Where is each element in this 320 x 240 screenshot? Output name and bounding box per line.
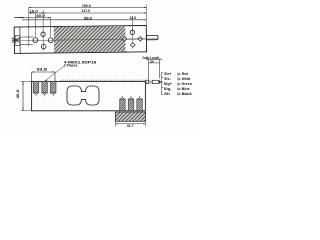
callout leader bbox=[45, 66, 64, 81]
cable gland stub (top view) bbox=[146, 35, 158, 39]
dimension 150.0 bbox=[29, 7, 147, 9]
svg-text:33.8: 33.8 bbox=[36, 68, 47, 72]
side view body bbox=[32, 81, 146, 110]
dimension 33.8 bbox=[32, 72, 55, 81]
top threaded hole 2 bbox=[42, 81, 48, 96]
right block diamond right bbox=[138, 37, 143, 42]
top view hatched midsection bbox=[54, 26, 126, 52]
top view loading boss bbox=[14, 36, 33, 46]
top view body bbox=[14, 25, 146, 53]
cable length dimension 2m bbox=[146, 59, 162, 80]
binocular cutout bbox=[67, 86, 99, 105]
svg-text:Blue: Blue bbox=[182, 87, 190, 91]
svg-text:117.0: 117.0 bbox=[81, 9, 90, 13]
svg-text:Black: Black bbox=[182, 92, 192, 96]
side view edge extensions to vertical dim bbox=[21, 80, 32, 82]
cable arrow bbox=[159, 80, 162, 84]
svg-text:88.0: 88.0 bbox=[84, 16, 92, 20]
right block hole cross ticks bbox=[121, 29, 145, 39]
svg-text:150.0: 150.0 bbox=[82, 4, 91, 8]
dimension arrowheads bbox=[14, 7, 161, 125]
wire row Ex+ Red bbox=[164, 72, 188, 76]
right block diamond left bbox=[122, 37, 127, 42]
svg-text:41.7: 41.7 bbox=[127, 124, 134, 128]
svg-text:2 Places: 2 Places bbox=[64, 64, 78, 68]
wire row Sig+ Green bbox=[164, 82, 192, 86]
bottom threaded hole 2 bbox=[128, 96, 134, 111]
left block hole bottom bbox=[41, 44, 46, 49]
wire row Sh Black bbox=[164, 92, 192, 96]
loading button star bbox=[11, 36, 20, 44]
svg-text:White: White bbox=[182, 77, 191, 81]
side view clamp hatching above top edge bbox=[60, 80, 145, 82]
right block hole top bbox=[130, 30, 134, 34]
cable gland (side view) bbox=[146, 80, 149, 83]
top threaded hole 3 bbox=[50, 81, 56, 96]
svg-text:Sig+: Sig+ bbox=[164, 82, 172, 86]
wire row Ex- White bbox=[164, 77, 190, 81]
extension lines top view bbox=[29, 5, 147, 47]
svg-text:40.0: 40.0 bbox=[16, 89, 20, 98]
cable ferrule bbox=[152, 80, 159, 83]
bottom threaded hole 3 bbox=[137, 96, 143, 111]
right block diamond bottom bbox=[130, 43, 135, 48]
top view horizontal centerline bbox=[21, 39, 158, 41]
vertical dimension 40.0 (side view height) bbox=[22, 81, 24, 110]
dimension 117.0 bbox=[43, 12, 146, 14]
svg-text:Ex+: Ex+ bbox=[164, 72, 171, 76]
dimension 88.0 bbox=[22, 19, 146, 21]
cable neck bbox=[149, 80, 153, 82]
bottom threaded hole 1 bbox=[120, 96, 126, 111]
left block vertical centerline bbox=[42, 31, 44, 50]
svg-text:Sh: Sh bbox=[164, 92, 170, 96]
left block hole left bbox=[33, 38, 38, 43]
wire row Sig- Blue bbox=[164, 87, 190, 91]
left block hole right bbox=[48, 38, 53, 43]
left block hole cross ticks bbox=[32, 31, 55, 50]
dimension 41.7 bbox=[115, 122, 145, 127]
right block vertical centerline bbox=[131, 28, 133, 48]
svg-text:Ex-: Ex- bbox=[164, 77, 172, 81]
svg-text:2m: 2m bbox=[150, 60, 154, 64]
top threaded hole 1 bbox=[33, 81, 39, 96]
wire table brace bbox=[161, 73, 163, 95]
svg-text:40.0: 40.0 bbox=[36, 14, 45, 18]
mounting base block bbox=[115, 112, 145, 121]
svg-text:Green: Green bbox=[182, 82, 192, 86]
left block hole top bbox=[41, 32, 45, 36]
svg-text:Red: Red bbox=[182, 72, 188, 76]
svg-text:12.0: 12.0 bbox=[129, 16, 136, 20]
dimension 40.0 bbox=[14, 17, 50, 19]
dimension 16.0 bbox=[29, 12, 43, 14]
svg-text:Sig-: Sig- bbox=[164, 87, 173, 91]
top view end cap line bbox=[19, 27, 21, 53]
